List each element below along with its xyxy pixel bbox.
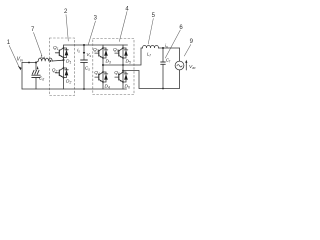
wire Ld to leg: [52, 59, 63, 62]
current is arrow: [83, 45, 85, 53]
transistor Q2 with diode D2: [55, 67, 68, 79]
svg-text:Lf: Lf: [147, 52, 152, 58]
node after Ld: [50, 60, 52, 62]
capacitor Cf branch wire: [162, 48, 164, 62]
transistor Q5 with diode D5: [115, 47, 128, 59]
leader line 4: [119, 12, 127, 42]
leader line 2: [66, 15, 68, 42]
wire bridge right leg top: [122, 45, 124, 47]
wire top dc bus: [64, 45, 128, 47]
svg-text:Cs: Cs: [85, 66, 90, 72]
node bridge left midpoint: [102, 64, 104, 66]
node Cf bottom: [162, 88, 164, 90]
wire bridge lower output: [123, 70, 180, 89]
svg-text:D2: D2: [66, 79, 71, 85]
svg-text:7: 7: [31, 27, 35, 33]
dashed box 4: [93, 39, 134, 95]
node Cs bottom: [83, 88, 85, 90]
wire boost leg mid: [63, 59, 65, 68]
capacitor Cd branch: wire: [35, 63, 37, 71]
wire output top to source: [179, 48, 181, 61]
svg-text:Cd: Cd: [39, 76, 44, 82]
svg-text:Q5: Q5: [113, 47, 119, 53]
leader line 9: [184, 45, 191, 57]
wire bridge upper output: [103, 48, 143, 65]
svg-text:Cf: Cf: [166, 58, 171, 64]
wire bridge right leg mid: [122, 59, 124, 71]
node Cd junction: [35, 62, 37, 64]
node on input wire: [28, 62, 30, 64]
resistor slashes in Cd branch: [32, 70, 39, 74]
svg-text:5: 5: [152, 13, 156, 19]
svg-text:io: io: [165, 43, 168, 49]
leader line 5: [148, 19, 153, 45]
capacitor Cd plates: [32, 75, 40, 77]
svg-text:Q3: Q3: [93, 47, 99, 53]
wire bridge left leg top: [102, 45, 104, 47]
transistor Q3 with diode D3: [95, 47, 108, 59]
svg-text:Vin: Vin: [17, 57, 23, 63]
svg-text:D1: D1: [66, 59, 71, 65]
svg-text:1: 1: [7, 40, 11, 46]
transistor Q4 with diode D4: [95, 71, 108, 83]
node boost leg midpoint: [63, 59, 65, 61]
wire left rail: [21, 63, 23, 90]
inductor Ld: [38, 58, 52, 61]
ac source Vac circle: [175, 61, 184, 70]
svg-text:Vs: Vs: [86, 52, 91, 58]
svg-text:9: 9: [190, 39, 194, 45]
node right leg crossing: [122, 64, 124, 66]
wire Q2 to bottom rail: [63, 79, 65, 90]
leader line 6: [165, 30, 180, 58]
wire bridge left leg mid: [102, 59, 104, 71]
dashed box 2: [50, 38, 75, 96]
wire top left: [22, 62, 36, 64]
capacitor Cs plates: [81, 60, 88, 62]
capacitor Cf plates: [161, 62, 166, 64]
svg-text:D6: D6: [125, 84, 130, 90]
wire Q4 to bottom rail: [102, 83, 104, 89]
wire Cf to bottom: [162, 64, 164, 88]
leader line 3: [88, 21, 95, 45]
wire Cd to bottom rail: [35, 78, 37, 90]
voltage Vac arrow: [185, 62, 187, 70]
svg-text:2: 2: [64, 9, 68, 15]
wire Q6 to bottom rail: [122, 83, 124, 89]
svg-text:4: 4: [125, 7, 129, 13]
inductor Lf: [143, 45, 159, 48]
node bus capacitor top: [83, 44, 85, 46]
leader line 7: [34, 33, 43, 57]
svg-text:Vac: Vac: [189, 64, 196, 70]
capacitor Cs branch wire: [83, 55, 85, 60]
svg-text:is: is: [77, 48, 80, 54]
svg-text:Q1: Q1: [53, 45, 59, 51]
svg-text:D5: D5: [126, 58, 131, 64]
wire Lf to output: [159, 47, 180, 49]
transistor Q1 with diode D1: [55, 47, 68, 59]
wire into inductor: [36, 61, 38, 62]
transistor Q6 with diode D6: [115, 71, 128, 83]
wire bottom rail: [22, 88, 127, 90]
svg-text:D4: D4: [105, 84, 110, 90]
arrow mark at Cd: [37, 66, 39, 69]
svg-text:3: 3: [94, 16, 98, 22]
leader line 1: [9, 46, 19, 67]
ac source sine mark: [177, 65, 182, 67]
node right leg lower tap: [122, 70, 124, 72]
node Cf top: [162, 47, 164, 49]
wire Cs to bottom rail: [83, 62, 85, 89]
svg-text:D3: D3: [106, 58, 111, 64]
